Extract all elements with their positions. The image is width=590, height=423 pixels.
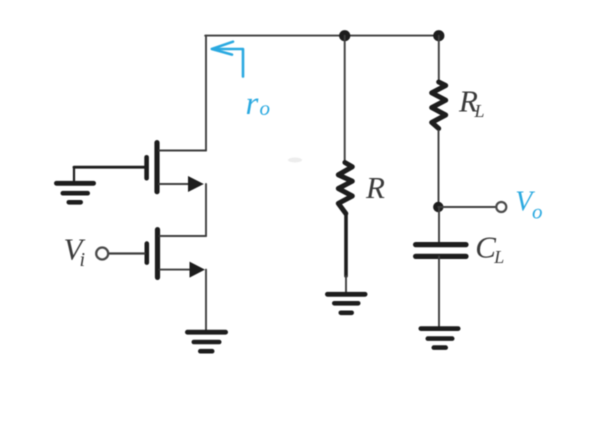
wire: left vertical from rail to M2 drain (205, 36, 207, 151)
ground (under CL) (421, 329, 458, 348)
wire: node to output terminal (438, 206, 495, 208)
transistor M1 (bottom, input) (110, 230, 207, 278)
node: junction dot at R branch (339, 30, 350, 41)
wire: RL to output node (438, 131, 440, 208)
label CL (475, 230, 504, 268)
svg-text:R: R (365, 170, 385, 205)
wire: M1 source down to ground (205, 270, 207, 330)
node: output junction dot (433, 202, 443, 212)
ground (under transistors) (187, 332, 225, 351)
wire: down to R (344, 36, 346, 163)
svg-text:r: r (246, 86, 259, 122)
resistor RL (432, 82, 446, 129)
M2 gate wire (74, 166, 144, 169)
svg-text:o: o (532, 200, 543, 224)
wire: CL to ground (438, 256, 440, 326)
svg-text:i: i (80, 249, 86, 271)
wire: down to RL (438, 36, 440, 80)
svg-text:L: L (493, 247, 504, 267)
label Vo (cyan) (515, 187, 542, 224)
M2 source arrow (188, 176, 204, 192)
M2 gate bar (144, 157, 149, 178)
svg-text:C: C (475, 230, 496, 265)
M2 channel bar (154, 143, 159, 192)
faint artifact smudge (288, 158, 302, 163)
wire: top rail (205, 35, 439, 37)
wire: M2 source to M1 drain (205, 184, 207, 236)
M2 source wire (159, 183, 192, 185)
label RL (458, 84, 485, 122)
transistor M2 (top, gate grounded) (74, 143, 206, 192)
node: junction dot at RL branch (rail right end) (433, 30, 444, 41)
M1 gate bar (145, 244, 150, 263)
M2 drain wire (159, 150, 206, 152)
M1 gate wire (110, 252, 145, 254)
M1 drain wire (160, 235, 207, 237)
label ro (246, 86, 271, 122)
capacitor CL (416, 245, 466, 257)
svg-text:L: L (474, 101, 485, 121)
M1 source arrow (190, 262, 206, 278)
ground (left, M2 gate) (56, 168, 93, 202)
output terminal Vo (496, 202, 506, 212)
input terminal Vi (96, 248, 108, 260)
ground (under R) (327, 294, 365, 313)
current arrow ro (cyan) (212, 42, 243, 77)
M1 source wire (160, 269, 193, 271)
svg-text:o: o (260, 96, 271, 120)
wire: R to ground (bold then thin) (344, 215, 348, 277)
label Vi (64, 232, 86, 272)
M1 channel bar (155, 230, 160, 278)
resistor R (338, 163, 352, 214)
wire: node down to CL (438, 207, 440, 243)
